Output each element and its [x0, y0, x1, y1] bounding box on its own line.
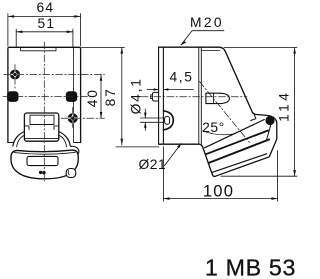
- svg-text:64: 64: [37, 0, 55, 15]
- svg-text:51: 51: [38, 16, 56, 31]
- svg-text:87: 87: [103, 87, 118, 106]
- svg-text:25°: 25°: [202, 120, 225, 135]
- svg-text:Ø21: Ø21: [138, 157, 166, 172]
- svg-text:Ø4,1: Ø4,1: [128, 77, 143, 114]
- svg-text:40: 40: [85, 88, 100, 107]
- svg-text:4,5: 4,5: [170, 70, 194, 85]
- svg-text:1 MB 53: 1 MB 53: [205, 255, 296, 279]
- svg-text:114: 114: [277, 90, 292, 122]
- svg-text:100: 100: [203, 182, 234, 201]
- svg-text:M20: M20: [190, 15, 224, 30]
